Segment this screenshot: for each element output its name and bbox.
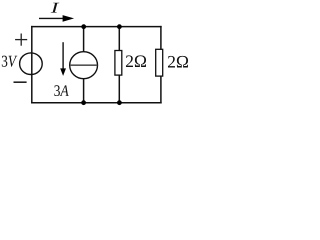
bottom wire — [31, 102, 162, 104]
current source branch wire bottom — [83, 78, 85, 103]
junction node top B — [117, 24, 122, 29]
junction node bottom B — [117, 100, 122, 105]
current source branch wire top — [83, 26, 85, 53]
label 3A — [54, 85, 68, 96]
current source I1 circle — [70, 52, 98, 79]
junction node bottom A — [81, 100, 86, 105]
resistor R1 branch wire — [118, 26, 120, 103]
top wire — [31, 26, 162, 28]
plus sign of source — [15, 34, 27, 46]
label 2 ohm R1 — [126, 55, 146, 67]
resistor R2 body — [156, 49, 163, 76]
label 2 ohm R2 — [168, 56, 188, 68]
resistor R1 body — [115, 51, 122, 76]
junction node top A — [81, 24, 86, 29]
3A annotation arrow — [60, 42, 66, 76]
right wire / resistor R2 branch — [160, 26, 162, 104]
current label I — [51, 3, 60, 13]
minus sign of source — [14, 81, 27, 83]
label 3V — [2, 56, 17, 67]
left wire (through voltage source) — [31, 26, 33, 104]
voltage source U1 circle — [20, 53, 43, 75]
current source bar — [70, 64, 97, 66]
current direction arrow — [39, 15, 74, 22]
